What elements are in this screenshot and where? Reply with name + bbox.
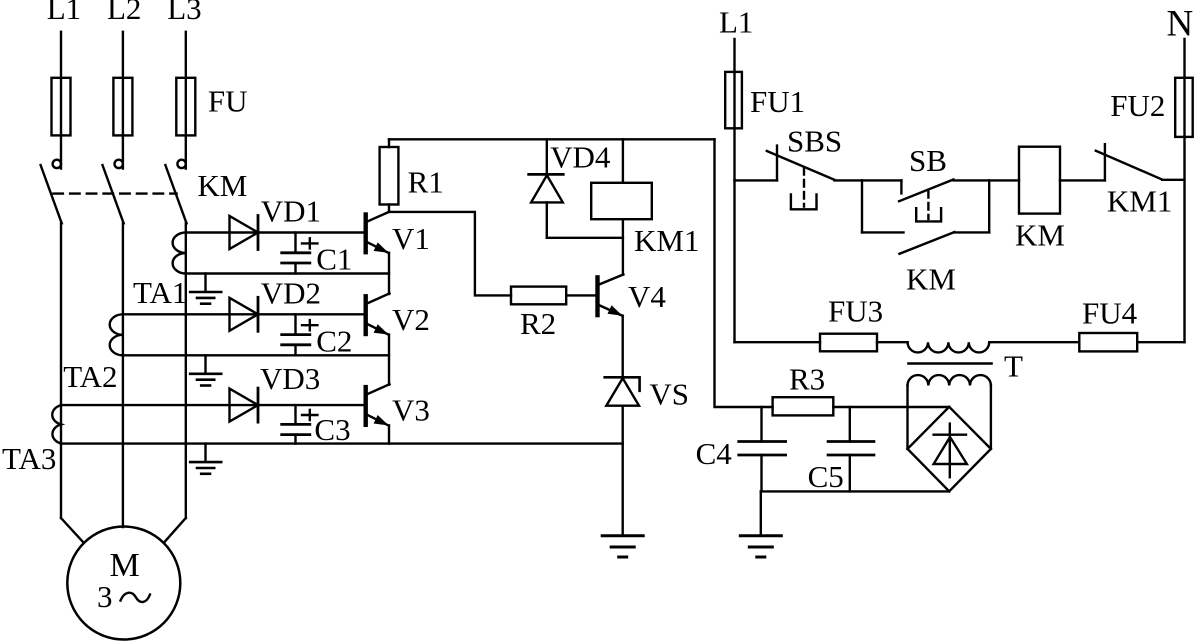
svg-text:FU3: FU3 [828,294,883,329]
svg-text:L1: L1 [47,0,81,26]
wire TA2 to VD2 and V2 base [123,313,364,315]
svg-text:SBS: SBS [787,124,842,159]
switch SBS (stop button, NC) [735,179,778,181]
svg-text:KM: KM [906,262,956,297]
diode VD1 [230,216,259,249]
ground (channel 2) [204,355,206,373]
fuse FU1 [725,72,742,128]
wire V4 emitter to VS [622,316,624,378]
svg-text:KM: KM [197,168,247,203]
wire N line [1183,39,1185,78]
fuse FU2 [1175,78,1193,137]
svg-text:3: 3 [97,579,113,614]
svg-text:KM1: KM1 [1107,184,1172,219]
zener diode VS [605,377,640,391]
resistor R2 [511,287,566,305]
contactor KM pole 3 blade [165,165,186,223]
wire secondary left to bridge [906,386,908,449]
wire V2 emitter to V3 collector [388,335,390,385]
svg-text:V1: V1 [392,221,430,256]
svg-text:TA1: TA1 [133,275,187,310]
svg-text:R3: R3 [789,362,825,397]
contact KM (self-hold, NO) [862,231,904,233]
contactor KM pole 2 blade [103,165,124,223]
wire phase L1 into motor (diagonal) [61,518,84,543]
transformer T core [909,362,992,365]
bridge rectifier [908,407,991,492]
svg-text:R1: R1 [408,165,444,200]
svg-text:TA2: TA2 [63,359,117,394]
ground (below VS) [602,534,643,537]
wire FU1 down to transformer feed corner [733,128,735,342]
transistor V1 [364,215,368,253]
transistor V4 [595,277,599,315]
wire channel-2 lower rail [123,354,389,356]
capacitor C5 [849,407,851,442]
ground (channel 3) [204,444,206,462]
svg-text:V4: V4 [628,279,666,314]
svg-text:TA3: TA3 [2,441,56,476]
wire R2 to V4 base [566,294,595,296]
wire channel-3 lower rail to VS line [61,442,623,444]
wire TA3 to VD3 and V3 base [61,404,364,406]
svg-text:VD4: VD4 [550,140,611,175]
svg-text:VD3: VD3 [260,361,320,396]
contactor KM pole 2 contact circle [115,160,123,168]
svg-text:L3: L3 [167,0,201,26]
capacitor C1 [294,233,296,253]
wire TA1 to VD1 and V1 base [186,231,364,233]
wire phase L2 upper [122,32,124,169]
svg-text:VD2: VD2 [261,276,321,311]
wire V3 emitter to lower rail [388,425,390,443]
ground (channel 1) [204,274,206,292]
svg-text:M: M [110,547,140,584]
contact KM1 (interlock, NC) [1104,144,1106,180]
wire R3 to bridge + output [833,406,949,408]
wire N line down to FU4 corner [1183,137,1185,342]
transformer TA3 winding [52,405,61,444]
svg-text:C2: C2 [316,323,352,358]
fuse FU3 [820,334,877,352]
wire phase L3 into motor (diagonal) [164,518,186,543]
wire channel-1 lower rail [186,272,389,274]
fuse FU phase L3 [176,78,195,136]
svg-text:L2: L2 [107,0,141,26]
wire V1 collector node to R2 [389,212,511,296]
fuse FU phase L1 [52,78,71,136]
svg-text:T: T [1004,349,1023,384]
svg-text:R2: R2 [520,306,556,341]
svg-text:C1: C1 [316,242,352,277]
wire top supply rail [389,138,715,140]
wire parallel-branch right vertical [988,180,990,232]
svg-text:FU2: FU2 [1110,88,1165,123]
fuse FU4 [1137,341,1184,343]
svg-text:FU: FU [208,84,248,119]
diode VD3 [230,389,259,422]
svg-text:V2: V2 [392,302,430,337]
wire L1 control line [733,39,735,72]
svg-text:KM1: KM1 [634,223,699,258]
capacitor C4 [760,407,762,442]
transistor V2 [364,296,368,334]
ground (below C4) [740,534,781,537]
wire bridge - output rail [761,490,949,492]
svg-text:C3: C3 [314,412,350,447]
resistor R1 [388,139,390,147]
svg-text:V3: V3 [392,393,430,428]
coil KM [989,179,1019,181]
svg-text:SB: SB [909,143,947,178]
wire to FU3 [735,341,821,343]
capacitor C2 [294,314,296,334]
svg-text:L1: L1 [719,5,753,40]
wire phase L3 lower [185,223,187,518]
svg-text:FU1: FU1 [750,84,805,119]
motor M circle [67,527,180,640]
wire C4 to ground [760,491,762,535]
wire phase L2 lower [122,223,124,527]
contactor KM pole 3 contact circle [177,160,185,168]
fuse FU phase L2 [113,78,132,136]
svg-text:C4: C4 [696,436,733,471]
capacitor C3 [294,405,296,424]
transformer T primary [908,342,990,352]
contactor KM pole 1 contact circle [53,160,61,168]
contactor KM pole 1 blade [41,165,62,223]
wire phase L1 upper [60,32,62,169]
diode VD4 [546,139,548,174]
diode VD2 [230,298,259,331]
wire VD4 anode to KM1 coil bottom [547,237,623,239]
resistor R3 [773,397,834,415]
transformer TA2 winding [110,314,123,355]
contactor KM linkage (dashed) [53,192,176,194]
svg-text:VD1: VD1 [261,194,321,229]
transistor V3 [364,387,368,425]
transformer T secondary [908,375,991,385]
svg-text:VS: VS [649,377,689,412]
wire parallel-branch left vertical [861,180,863,232]
svg-text:C5: C5 [808,459,844,494]
transformer TA1 winding [173,233,186,274]
svg-text:FU4: FU4 [1082,296,1138,331]
wire V1 emitter to V2 collector [388,253,390,294]
wire phase L3 upper [185,32,187,169]
relay coil KM1 [622,139,624,183]
wire secondary right to bridge [990,386,992,449]
svg-text:KM: KM [1015,218,1065,253]
switch SB (start button, NO) [862,179,901,181]
wire top rail down to R3 rail [715,139,773,407]
wire phase L1 lower [60,223,62,518]
svg-text:N: N [1167,4,1194,45]
